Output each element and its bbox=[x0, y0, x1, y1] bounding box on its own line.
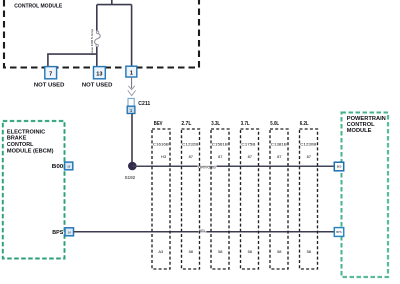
PCM connector (bottom) bbox=[334, 228, 343, 237]
wire label GRY/ORG bbox=[198, 165, 217, 170]
svg-text:87: 87 bbox=[218, 154, 223, 159]
splice S192 bbox=[128, 162, 137, 171]
pin 7 bbox=[45, 67, 57, 79]
EBCM label bbox=[7, 129, 54, 154]
svg-text:NOT USED: NOT USED bbox=[82, 83, 113, 89]
svg-text:NOT USED: NOT USED bbox=[34, 83, 65, 89]
wire GRY/ORG to PCM bbox=[132, 165, 334, 167]
svg-text:MODULE (EBCM): MODULE (EBCM) bbox=[7, 149, 54, 155]
svg-text:6.2L: 6.2L bbox=[300, 121, 309, 127]
svg-text:C1381B: C1381B bbox=[271, 143, 288, 147]
svg-text:C1616B: C1616B bbox=[153, 143, 170, 147]
BEV option box bbox=[152, 121, 170, 269]
svg-text:A3: A3 bbox=[158, 249, 164, 254]
svg-text:B00: B00 bbox=[52, 164, 64, 170]
wire to pin 1 bbox=[131, 5, 133, 66]
svg-text:87: 87 bbox=[277, 154, 282, 159]
svg-text:C211: C211 bbox=[138, 101, 150, 107]
5.0L option box bbox=[270, 121, 288, 269]
svg-text:3.3L: 3.3L bbox=[211, 121, 220, 127]
svg-text:ELECTROINIC: ELECTROINIC bbox=[7, 129, 46, 135]
svg-text:13: 13 bbox=[96, 71, 102, 77]
wire C211 to splice bbox=[131, 114, 133, 162]
EBCM module box bbox=[3, 121, 65, 259]
BPS label bbox=[52, 230, 64, 236]
3.3L option box bbox=[211, 121, 229, 269]
svg-text:BEV: BEV bbox=[154, 121, 163, 127]
svg-text:58: 58 bbox=[248, 249, 253, 254]
wire pin 1 to inline connector bbox=[131, 77, 133, 88]
svg-text:Fuse F08 5 Amp: Fuse F08 5 Amp bbox=[90, 29, 94, 55]
svg-text:MODULE: MODULE bbox=[347, 128, 372, 134]
fuse label bbox=[90, 29, 94, 55]
fuse F08 bbox=[95, 31, 101, 47]
C211 label bbox=[138, 101, 150, 107]
svg-text:2.7L: 2.7L bbox=[181, 121, 191, 127]
svg-text:GRY/ORG: GRY/ORG bbox=[198, 165, 216, 169]
svg-text:BPS: BPS bbox=[52, 230, 64, 236]
powertrain control module box bbox=[342, 113, 389, 278]
wire YEL to PCM bbox=[74, 231, 335, 233]
connector B00 bbox=[65, 162, 73, 170]
svg-text:5.0L: 5.0L bbox=[270, 121, 279, 127]
3.7L option box bbox=[241, 121, 259, 269]
svg-text:C1561B: C1561B bbox=[212, 143, 229, 147]
svg-text:87: 87 bbox=[189, 154, 194, 159]
control module label bbox=[14, 3, 62, 9]
inline connector C211 bbox=[127, 86, 135, 114]
pin 13 bbox=[94, 67, 106, 79]
wire top feed bbox=[97, 0, 132, 31]
control module box bbox=[4, 0, 199, 68]
svg-text:CONTROL MODULE: CONTROL MODULE bbox=[14, 3, 62, 9]
PCM label bbox=[347, 116, 386, 134]
pin 1 bbox=[126, 66, 137, 77]
svg-text:1: 1 bbox=[130, 70, 133, 76]
svg-text:BPS: BPS bbox=[336, 230, 341, 234]
not used label (pin 7) bbox=[34, 83, 65, 89]
connector BPS bbox=[65, 228, 74, 236]
svg-text:B00: B00 bbox=[337, 165, 342, 169]
svg-text:58: 58 bbox=[189, 249, 194, 254]
svg-text:C1232B: C1232B bbox=[182, 143, 199, 147]
svg-text:58: 58 bbox=[277, 249, 282, 254]
wire label YEL bbox=[198, 228, 206, 233]
S192 label bbox=[125, 175, 136, 180]
svg-text:58: 58 bbox=[307, 249, 312, 254]
svg-text:H3: H3 bbox=[161, 154, 167, 159]
2.7L option box bbox=[181, 121, 199, 269]
svg-text:7: 7 bbox=[49, 71, 52, 77]
svg-text:C175B: C175B bbox=[241, 143, 256, 147]
svg-text:58: 58 bbox=[218, 249, 223, 254]
B00 label bbox=[52, 164, 64, 170]
svg-text:C1230B: C1230B bbox=[300, 143, 317, 147]
not used label (pin 13) bbox=[82, 83, 113, 89]
svg-text:BRAKE: BRAKE bbox=[7, 136, 27, 142]
svg-text:3.7L: 3.7L bbox=[241, 121, 250, 127]
PCM connector (top) bbox=[334, 162, 343, 171]
wire fuse to pins 7 and 13 bbox=[48, 47, 97, 66]
6.2L option box bbox=[300, 121, 318, 269]
svg-text:87: 87 bbox=[248, 154, 253, 159]
svg-text:S192: S192 bbox=[125, 175, 136, 180]
svg-text:87: 87 bbox=[307, 154, 312, 159]
svg-text:CONTORL: CONTORL bbox=[7, 142, 34, 148]
